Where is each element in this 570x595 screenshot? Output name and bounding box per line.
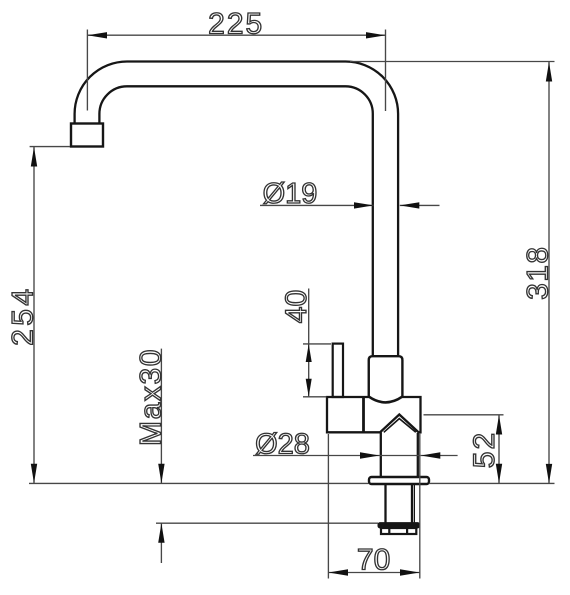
faucet spout pipe outer profile <box>75 61 399 356</box>
dimension 254 <box>30 147 70 484</box>
svg-text:40: 40 <box>280 290 313 323</box>
handle lever <box>333 344 343 397</box>
collar bottom arc <box>369 397 403 403</box>
body chevron inner line <box>384 419 416 433</box>
faucet spout pipe inner profile <box>99 86 372 356</box>
deck flange <box>369 477 429 484</box>
dimension D19 leader <box>260 204 440 206</box>
svg-text:254: 254 <box>7 286 40 346</box>
dimension 40 <box>303 289 331 397</box>
dimension D28 leader <box>253 455 458 457</box>
mounting nut washer bar <box>378 523 420 528</box>
svg-text:Max30: Max30 <box>135 348 168 446</box>
spout tip aerator rectangle <box>71 124 103 147</box>
body divider line <box>362 397 365 432</box>
upper shank below body <box>380 432 382 477</box>
svg-text:52: 52 <box>468 431 501 468</box>
dimension 318 <box>350 62 555 484</box>
svg-text:Ø28: Ø28 <box>255 429 310 461</box>
svg-text:318: 318 <box>522 246 555 300</box>
svg-text:Ø19: Ø19 <box>263 178 318 210</box>
deck reference line <box>29 482 555 484</box>
dimension 70 <box>328 433 419 579</box>
dimension 225 line with arrows <box>87 30 385 112</box>
lower threaded shank <box>384 484 386 523</box>
dimension Max30 <box>156 349 378 563</box>
dimension 52 <box>424 415 504 484</box>
mounting nut body <box>381 528 416 534</box>
svg-text:70: 70 <box>357 544 390 577</box>
collar between pipe and body <box>369 356 403 397</box>
svg-text:225: 225 <box>208 8 264 41</box>
faucet body outline <box>327 397 421 433</box>
